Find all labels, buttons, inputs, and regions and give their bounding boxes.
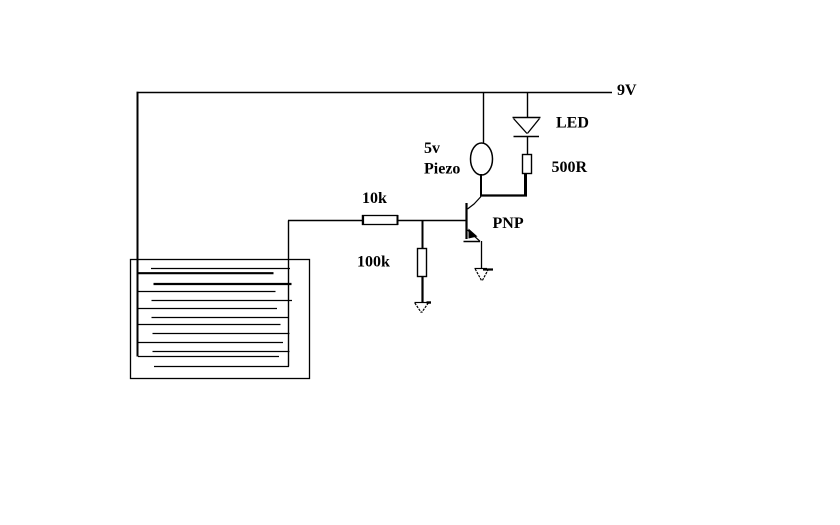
svg-text:10k: 10k [362,190,387,207]
LED diode symbol [513,118,541,137]
label PNP [493,215,524,232]
ground (emitter) [475,269,494,282]
sensor finger (right, row 13, electrode bottom) [154,366,289,368]
wire piezo bottom [480,174,482,197]
sensor finger (left, row 4) [138,291,276,293]
svg-text:LED: LED [556,115,589,132]
svg-text:PNP: PNP [493,215,524,232]
piezo buzzer (ellipse) [471,143,493,175]
label 500R [552,159,588,176]
sensor finger (left, row 10) [138,342,283,344]
wire base (horizontal from sensor to base) [288,220,466,222]
svg-text:Piezo: Piezo [424,161,460,178]
ground (below 100k) [415,303,432,313]
label 9V [617,82,637,99]
label 100k [357,254,390,271]
sensor finger (right, row 3, thick) [154,283,292,285]
sensor finger (left, row 12, electrode bottom) [138,356,279,358]
wire 9V supply rail (top horizontal) [137,92,613,94]
label 10k [362,190,387,207]
wire 100k bottom to ground [421,277,423,303]
wire junction to 100k [422,221,424,250]
wire 500R bottom [524,174,527,197]
transistor Q1 PNP [464,203,481,242]
svg-text:9V: 9V [617,82,637,99]
wire collector diagonal lead [468,197,482,210]
resistor 10k (horizontal body) [363,215,398,225]
wire LED cathode to resistor [527,137,529,155]
wire right electrode (vertical from base wire into tank) [288,221,290,367]
label LED [556,115,589,132]
svg-text:500R: 500R [552,159,588,176]
label 5v Piezo [424,140,460,178]
sensor finger (left, row 2, thick) [137,272,274,274]
resistor 500R (vertical body) [523,155,532,174]
sensor finger (left, row 6) [138,308,277,310]
sensor finger (right, row 11) [153,351,290,353]
wire LED top drop [527,92,529,118]
water tank (outer container) [131,260,310,379]
wire left electrode feed (vertical from rail into tank) [137,92,139,357]
sensor finger (right, row 9) [153,333,290,335]
svg-text:100k: 100k [357,254,390,271]
svg-text:5v: 5v [424,140,440,157]
resistor 100k (vertical body) [418,249,427,277]
wire piezo top drop [483,92,485,144]
sensor finger (left, row 8) [138,324,281,326]
wire collector junction horizontal [480,194,527,196]
wire emitter drop [481,241,483,268]
sensor finger (right, row 5) [152,300,293,302]
sensor finger (right, row 7) [152,317,290,319]
sensor finger (right, row 1) [151,268,290,270]
